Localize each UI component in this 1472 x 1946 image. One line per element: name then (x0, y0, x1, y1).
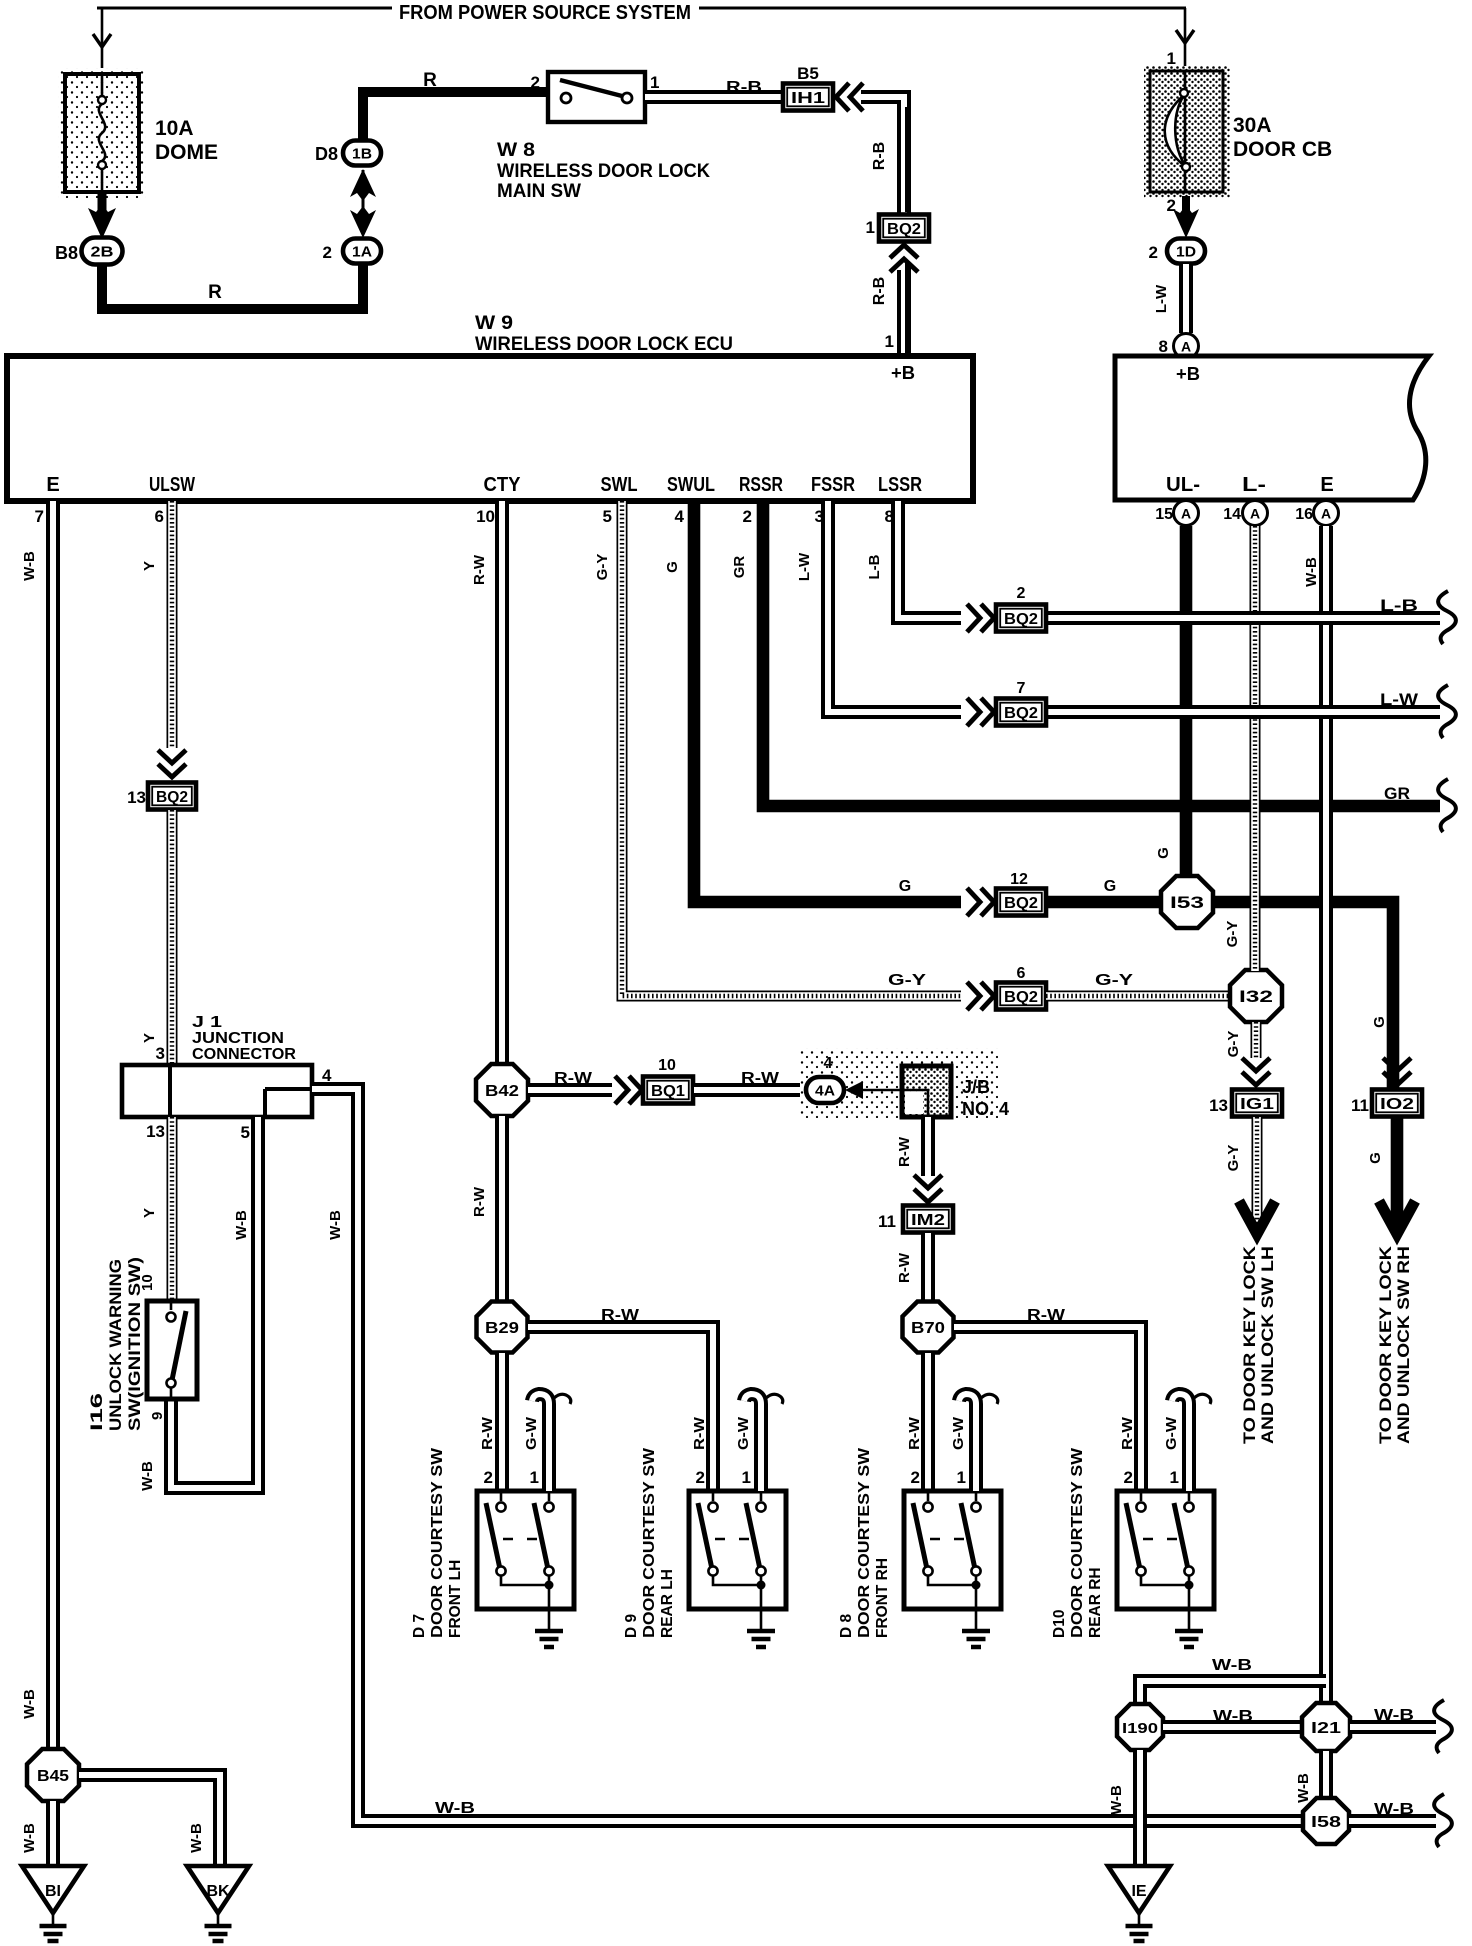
svg-text:LSSR: LSSR (878, 474, 922, 496)
svg-text:7: 7 (1017, 680, 1026, 697)
wire R-B - switch to IH1 (645, 90, 783, 104)
svg-text:R-W: R-W (1119, 1416, 1136, 1450)
arrow chevrons down into IO2 (1383, 1058, 1411, 1085)
svg-text:+B: +B (891, 363, 915, 383)
svg-text:L-W: L-W (1153, 284, 1170, 313)
svg-text:G: G (899, 878, 911, 895)
wire R-W - ECU pin 10 CTY down to B42 (495, 501, 509, 1063)
continuation squiggle I58 (1434, 1794, 1452, 1847)
wire W-B - I58 right (1349, 1814, 1436, 1828)
arrow chevrons down into IG1 (1242, 1058, 1270, 1085)
wire G - I53 right then down to IO2 (1211, 902, 1393, 1088)
svg-text:D 9: D 9 (623, 1614, 640, 1639)
svg-text:IG1: IG1 (1240, 1096, 1274, 1113)
wire G - SWUL pin 4 to BQ2 12 and I53 (694, 501, 961, 902)
svg-text:W-B: W-B (327, 1210, 344, 1240)
wire R-W - BQ1 to 4A (694, 1083, 806, 1097)
svg-text:A: A (1250, 506, 1260, 522)
wire R-W - B42 down to B29 (495, 1116, 509, 1302)
svg-text:B70: B70 (911, 1320, 945, 1337)
svg-text:G-Y: G-Y (888, 972, 926, 989)
continuation squiggle I21 (1434, 1700, 1452, 1753)
svg-text:TO DOOR KEY LOCK: TO DOOR KEY LOCK (1377, 1246, 1395, 1444)
svg-text:13: 13 (1209, 1096, 1228, 1115)
switch D7 DOOR COURTESY SW FRONT LH (477, 1491, 574, 1609)
svg-text:R-W: R-W (896, 1136, 913, 1167)
wire R-W - B70 right to D10 pin 2 (954, 1327, 1141, 1489)
svg-text:B45: B45 (37, 1768, 69, 1785)
junction B29 (477, 1302, 528, 1353)
svg-text:W-B: W-B (1213, 1708, 1253, 1725)
svg-text:2: 2 (323, 243, 332, 262)
svg-text:4: 4 (824, 1055, 833, 1072)
svg-text:W 9: W 9 (475, 313, 513, 334)
svg-text:UL-: UL- (1166, 474, 1200, 496)
svg-text:1: 1 (742, 1468, 751, 1487)
svg-text:R: R (423, 70, 437, 91)
svg-text:BQ2: BQ2 (887, 221, 921, 238)
svg-text:W 8: W 8 (497, 140, 535, 161)
wire R-W - J/B down to IM2 (921, 1117, 935, 1176)
arrow - big arrow down LH (1239, 1201, 1275, 1234)
arrow chevrons down into IM2 (914, 1175, 942, 1202)
wire W-B - J1 pin 5 down and to I16 pin 9 (171, 1117, 258, 1488)
svg-text:DOME: DOME (155, 141, 218, 164)
wire G-Y - I32 down to IG1 (1251, 1022, 1262, 1058)
svg-text:1: 1 (1170, 1468, 1179, 1487)
svg-text:5: 5 (241, 1123, 250, 1142)
svg-text:2: 2 (484, 1468, 493, 1487)
svg-text:12: 12 (1010, 871, 1028, 888)
fuse 10A DOME (58, 68, 146, 198)
svg-text:L-: L- (1242, 474, 1266, 496)
svg-text:I32: I32 (1239, 987, 1273, 1006)
circuit breaker 30A DOOR CB (1144, 66, 1230, 198)
svg-text:W-B: W-B (1374, 1707, 1414, 1724)
svg-text:R-W: R-W (479, 1416, 496, 1450)
svg-text:RSSR: RSSR (739, 474, 783, 496)
arrow - CB to connector 1D (1182, 196, 1190, 214)
svg-text:+B: +B (1176, 364, 1200, 384)
svg-text:10A: 10A (155, 117, 194, 140)
wire W-B - B45 down to BI ground (46, 1801, 60, 1864)
svg-text:B42: B42 (485, 1083, 519, 1100)
wire W-B - branch left to I190 (1140, 1681, 1326, 1702)
wire W-B - I190 down to IE ground (1133, 1750, 1147, 1864)
svg-text:R: R (208, 282, 222, 303)
svg-text:BQ2: BQ2 (1004, 611, 1038, 628)
junction block J/B NO.4 (902, 1066, 951, 1117)
arrow - chevrons up into BQ2 (890, 245, 918, 272)
svg-text:W-B: W-B (21, 1689, 38, 1719)
svg-text:ULSW: ULSW (149, 474, 195, 496)
svg-text:R-B: R-B (871, 142, 888, 170)
svg-text:W-B: W-B (1295, 1773, 1312, 1803)
svg-text:IH1: IH1 (791, 90, 825, 107)
svg-text:BQ2: BQ2 (156, 789, 188, 806)
svg-text:GR: GR (731, 556, 748, 579)
svg-text:L-W: L-W (1380, 690, 1419, 709)
wire L-B - LSSR pin 8 to BQ2 and right (898, 501, 961, 618)
svg-text:B8: B8 (55, 243, 78, 263)
wire R-B - IH1 to BQ2 pin 1 (861, 97, 904, 213)
svg-text:4A: 4A (815, 1083, 835, 1100)
junction I21 (1302, 1703, 1350, 1751)
svg-text:A: A (1181, 506, 1191, 522)
svg-text:W-B: W-B (1108, 1785, 1125, 1815)
svg-text:1: 1 (885, 332, 894, 351)
svg-text:W-B: W-B (139, 1461, 156, 1491)
svg-text:D10: D10 (1051, 1610, 1068, 1638)
arrow pair between 1B and 1A (362, 170, 365, 216)
junction B70 (903, 1302, 954, 1353)
junction I32 (1230, 970, 1282, 1022)
switch D8 DOOR COURTESY SW FRONT RH (904, 1491, 1001, 1609)
svg-text:W-B: W-B (188, 1823, 205, 1853)
svg-text:6: 6 (155, 507, 164, 526)
wire G - circle 15 down to I53 (1180, 526, 1193, 878)
wire G - IO2 down to door key lock sw RH (1391, 1117, 1404, 1231)
svg-text:WIRELESS DOOR LOCK ECU: WIRELESS DOOR LOCK ECU (475, 334, 733, 355)
wire R-B - BQ2 to ECU +B (897, 270, 911, 356)
svg-text:G: G (664, 561, 681, 573)
svg-text:G-Y: G-Y (1225, 1031, 1242, 1058)
svg-text:4: 4 (675, 507, 685, 526)
wire G-Y - IG1 down to door key lock sw LH (1252, 1117, 1263, 1231)
svg-text:SWL: SWL (601, 474, 638, 496)
svg-text:2: 2 (911, 1468, 920, 1487)
svg-text:R-W: R-W (906, 1416, 923, 1450)
svg-text:AND UNLOCK SW RH: AND UNLOCK SW RH (1395, 1246, 1413, 1444)
svg-text:I53: I53 (1170, 893, 1204, 912)
wire G-Y - circle 14 down to I32 (1250, 526, 1261, 971)
svg-text:11: 11 (1351, 1096, 1369, 1115)
svg-text:DOOR COURTESY SW: DOOR COURTESY SW (856, 1448, 873, 1638)
svg-text:15: 15 (1155, 506, 1173, 523)
continuation squiggle L-B (1438, 591, 1456, 644)
svg-text:Y: Y (141, 1208, 158, 1218)
svg-text:WIRELESS DOOR LOCK: WIRELESS DOOR LOCK (497, 161, 710, 182)
svg-text:A: A (1181, 339, 1191, 355)
svg-text:FRONT RH: FRONT RH (874, 1558, 891, 1638)
svg-text:SWUL: SWUL (667, 474, 715, 496)
svg-text:BQ2: BQ2 (1004, 895, 1038, 912)
svg-text:1: 1 (866, 218, 875, 237)
connector 1A (343, 239, 381, 264)
svg-text:1: 1 (1167, 49, 1176, 68)
wire GR - RSSR pin 2 to right edge (763, 501, 1440, 806)
arrow chevrons into BQ1 (615, 1076, 642, 1104)
svg-text:MAIN SW: MAIN SW (497, 181, 581, 202)
wire Y - J1 pin 13 down to I16 (167, 1117, 178, 1299)
wire W-B - J1 pin 4 down to bottom and right to I58 (312, 1089, 1301, 1821)
arrow chevrons into BQ2 7 (967, 698, 994, 726)
svg-text:2: 2 (696, 1468, 705, 1487)
svg-text:I21: I21 (1311, 1720, 1341, 1737)
svg-text:DOOR COURTESY SW: DOOR COURTESY SW (1069, 1448, 1086, 1638)
svg-text:13: 13 (127, 788, 146, 807)
arrow - solid arrow into 4A (845, 1081, 863, 1099)
junction I190 (1117, 1704, 1163, 1750)
svg-text:6: 6 (1017, 965, 1026, 982)
svg-text:7: 7 (35, 507, 44, 526)
svg-text:UNLOCK WARNING: UNLOCK WARNING (107, 1259, 125, 1431)
wire G - BQ2 12 to I53 (1046, 896, 1163, 909)
svg-text:R-B: R-B (871, 277, 888, 305)
continuation squiggle L-W (1438, 685, 1456, 738)
arrow - chevrons left into IH1 (836, 83, 863, 111)
svg-text:2: 2 (1149, 243, 1158, 262)
wire W-B - I190 to I21 (1163, 1720, 1302, 1734)
svg-text:8: 8 (1159, 337, 1168, 356)
svg-text:10: 10 (139, 1274, 156, 1291)
junction I53 (1161, 876, 1213, 928)
svg-text:1: 1 (530, 1468, 539, 1487)
svg-text:W-B: W-B (233, 1210, 250, 1240)
svg-text:G-Y: G-Y (1224, 921, 1241, 948)
switch D10 DOOR COURTESY SW REAR RH (1117, 1491, 1214, 1609)
wire W-B - I21 right (1350, 1720, 1436, 1734)
svg-text:2: 2 (743, 507, 752, 526)
wire W-B - I21 down to I58 (1319, 1751, 1333, 1798)
svg-text:J/B: J/B (962, 1077, 990, 1097)
wire R - 2B to 1A (102, 264, 363, 309)
svg-text:14: 14 (1223, 506, 1241, 523)
svg-text:R-W: R-W (601, 1307, 640, 1324)
svg-text:B5: B5 (797, 64, 819, 83)
svg-text:AND UNLOCK SW LH: AND UNLOCK SW LH (1259, 1246, 1277, 1444)
svg-text:IE: IE (1131, 1883, 1146, 1900)
svg-text:DOOR CB: DOOR CB (1233, 138, 1332, 161)
svg-text:G-W: G-W (735, 1416, 752, 1450)
continuation squiggle GR (1438, 779, 1456, 832)
svg-text:R-W: R-W (554, 1070, 593, 1087)
svg-text:R-W: R-W (691, 1416, 708, 1450)
svg-text:3: 3 (156, 1044, 165, 1063)
wire L-W - FSSR pin 3 to BQ2 and right (828, 501, 961, 712)
arrow chevrons down into BQ2 13 (158, 750, 186, 777)
svg-text:Y: Y (141, 561, 158, 571)
svg-text:1B: 1B (352, 146, 372, 163)
ground IE (1108, 1866, 1170, 1913)
switch W8 WIRELESS DOOR LOCK MAIN SW (548, 72, 645, 122)
svg-text:2B: 2B (91, 244, 114, 261)
svg-text:FSSR: FSSR (811, 474, 855, 496)
svg-text:TO DOOR KEY LOCK: TO DOOR KEY LOCK (1241, 1246, 1259, 1444)
svg-text:BQ1: BQ1 (651, 1083, 685, 1100)
svg-text:5: 5 (603, 507, 612, 526)
svg-text:E: E (1320, 474, 1333, 496)
svg-text:I190: I190 (1122, 1720, 1158, 1737)
wire Y - ECU pin 6 ULSW down to BQ2 13 (167, 501, 178, 748)
wire W-B - ECU pin 7 E down to B45 (46, 501, 60, 1748)
svg-text:G-Y: G-Y (594, 554, 611, 581)
svg-text:Y: Y (141, 1033, 158, 1043)
ground BK (187, 1866, 249, 1913)
svg-text:R-W: R-W (471, 1186, 488, 1217)
svg-text:B29: B29 (485, 1320, 519, 1337)
wire G-Y - SWL pin 5 to BQ2 6 and I32 (622, 501, 961, 996)
svg-text:BK: BK (206, 1883, 230, 1900)
wire W-B - circle 16 down to I21 (1319, 526, 1333, 1704)
svg-text:1A: 1A (352, 244, 372, 261)
wire R - 1B to main switch (363, 92, 548, 141)
svg-text:D8: D8 (315, 144, 338, 164)
svg-text:REAR RH: REAR RH (1087, 1567, 1104, 1638)
svg-text:R-W: R-W (741, 1070, 780, 1087)
svg-text:W-B: W-B (21, 1823, 38, 1853)
wire - top power feed line with FROM POWER SOURCE SYSTEM (97, 7, 392, 10)
svg-text:1: 1 (650, 73, 659, 92)
svg-text:NO. 4: NO. 4 (962, 1099, 1009, 1119)
door lock assembly box right (1115, 356, 1429, 500)
svg-text:W-B: W-B (435, 1800, 475, 1817)
svg-text:R-W: R-W (471, 554, 488, 585)
svg-text:G-W: G-W (950, 1416, 967, 1450)
svg-text:I58: I58 (1311, 1814, 1341, 1831)
svg-text:W-B: W-B (21, 551, 38, 581)
wire R-W - B29 down to D7 pin 2 (495, 1353, 509, 1489)
arrow - fuse to connector 2B (98, 193, 107, 212)
svg-text:G-Y: G-Y (1225, 1145, 1242, 1172)
svg-text:1: 1 (957, 1468, 966, 1487)
svg-text:E: E (46, 474, 59, 496)
wire L-W - 1D to circle A pin 8 (1179, 264, 1193, 333)
svg-text:BQ2: BQ2 (1004, 705, 1038, 722)
wire G-Y - BQ2 6 to I32 (1046, 991, 1232, 1002)
svg-text:G: G (1155, 847, 1172, 859)
svg-text:R-B: R-B (726, 79, 762, 96)
svg-text:CTY: CTY (484, 474, 522, 496)
arrow chevrons into BQ2 2 (967, 604, 994, 632)
svg-text:10: 10 (476, 507, 495, 526)
arrow chevrons into BQ2 6 (967, 982, 994, 1010)
svg-text:W-B: W-B (1374, 1801, 1414, 1818)
arrow chevrons into BQ2 12 (967, 888, 994, 916)
wire R-W - B29 right to D9 pin 2 (528, 1327, 713, 1489)
svg-text:IO2: IO2 (1380, 1096, 1414, 1113)
junction B45 (27, 1749, 79, 1801)
svg-text:R-W: R-W (896, 1252, 913, 1283)
svg-text:L-W: L-W (796, 552, 813, 581)
svg-text:2: 2 (1017, 585, 1026, 602)
svg-text:REAR LH: REAR LH (659, 1569, 676, 1638)
svg-text:2: 2 (1124, 1468, 1133, 1487)
svg-text:G-W: G-W (523, 1416, 540, 1450)
svg-text:BI: BI (45, 1883, 61, 1900)
svg-text:30A: 30A (1233, 114, 1272, 137)
svg-text:G: G (1104, 878, 1116, 895)
svg-text:16: 16 (1295, 506, 1313, 523)
svg-text:A: A (1321, 506, 1331, 522)
svg-text:G: G (1367, 1152, 1384, 1164)
svg-text:W-B: W-B (1212, 1657, 1252, 1674)
svg-text:L-B: L-B (1380, 596, 1418, 615)
svg-text:FRONT LH: FRONT LH (447, 1560, 464, 1638)
svg-text:G-W: G-W (1163, 1416, 1180, 1450)
svg-text:G-Y: G-Y (1095, 972, 1133, 989)
svg-text:2: 2 (531, 73, 540, 92)
junction B42 (476, 1064, 528, 1116)
svg-text:R-W: R-W (1027, 1307, 1066, 1324)
wire R-W - B42 right to BQ1 (528, 1083, 612, 1097)
svg-text:10: 10 (658, 1057, 676, 1074)
svg-text:13: 13 (146, 1122, 165, 1141)
wire - right feed drop to DOOR CB (1184, 8, 1187, 71)
svg-text:W-B: W-B (1303, 557, 1320, 587)
wire R-W - B70 down to D8 pin 2 (921, 1353, 935, 1489)
svg-text:J 1: J 1 (192, 1014, 222, 1031)
svg-text:I16: I16 (88, 1393, 106, 1431)
svg-text:1D: 1D (1176, 244, 1196, 261)
wire Y - BQ2 13 down to J1 (167, 810, 178, 1063)
svg-text:D 8: D 8 (838, 1614, 855, 1639)
ground BI (22, 1866, 84, 1913)
switch D9 DOOR COURTESY SW REAR LH (689, 1491, 786, 1609)
wire R-W - IM2 down to B70 (921, 1233, 935, 1301)
svg-text:FROM POWER SOURCE SYSTEM: FROM POWER SOURCE SYSTEM (399, 2, 691, 24)
junction I58 (1303, 1798, 1349, 1844)
svg-text:JUNCTION: JUNCTION (192, 1030, 284, 1047)
svg-text:11: 11 (878, 1212, 896, 1231)
wire - left feed drop to fuse (101, 8, 104, 74)
stipple around J/B NO.4 (800, 1048, 998, 1118)
arrow - big arrow down RH (1379, 1201, 1415, 1234)
svg-text:L-B: L-B (866, 554, 883, 579)
svg-text:CONNECTOR: CONNECTOR (192, 1046, 296, 1063)
svg-text:DOOR COURTESY SW: DOOR COURTESY SW (429, 1448, 446, 1638)
svg-text:IM2: IM2 (911, 1212, 945, 1229)
svg-text:BQ2: BQ2 (1004, 989, 1038, 1006)
svg-text:G: G (1371, 1016, 1388, 1028)
wire W-B - B45 right to BK ground (79, 1775, 220, 1864)
svg-text:GR: GR (1384, 784, 1410, 803)
svg-text:9: 9 (149, 1412, 166, 1420)
svg-text:D 7: D 7 (411, 1614, 428, 1638)
svg-text:DOOR COURTESY SW: DOOR COURTESY SW (641, 1448, 658, 1638)
